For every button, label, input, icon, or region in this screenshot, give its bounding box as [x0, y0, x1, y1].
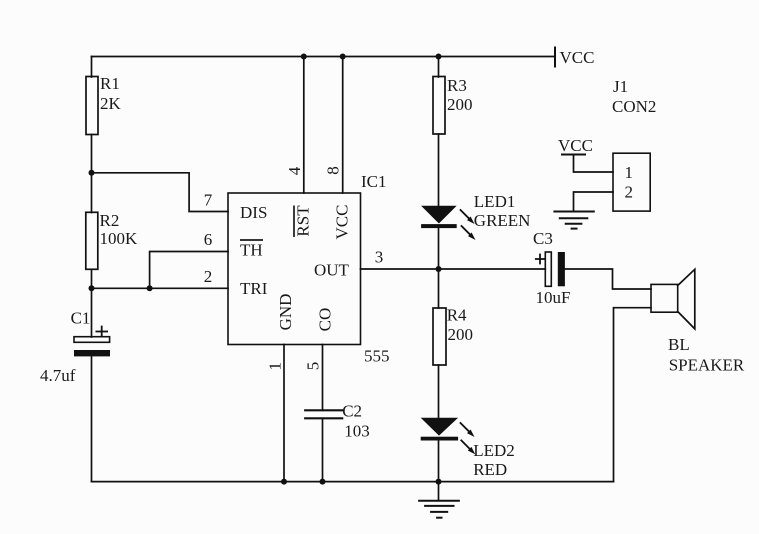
connector J1 body	[613, 153, 650, 211]
svg-text:R1: R1	[100, 74, 120, 93]
wire top VCC rail	[92, 56, 556, 58]
svg-text:5: 5	[304, 362, 323, 371]
svg-text:BL: BL	[668, 335, 690, 354]
wire VCC to J1 pin 1	[574, 155, 614, 173]
wire OUT net: pin 3 to C3	[361, 268, 546, 270]
svg-text:VCC: VCC	[558, 136, 593, 155]
svg-text:IC1: IC1	[361, 172, 387, 191]
junction pin1/bottom rail	[281, 479, 287, 485]
svg-text:2K: 2K	[100, 94, 122, 113]
svg-text:555: 555	[364, 347, 390, 366]
wire speaker bottom to bottom rail	[614, 308, 652, 482]
svg-text:DIS: DIS	[240, 203, 267, 222]
wire left rail: top corner to R1	[91, 57, 93, 78]
svg-text:OUT: OUT	[314, 261, 350, 280]
wire CO pin 5 to C2	[322, 345, 324, 411]
wire pin 4 to VCC rail	[303, 57, 305, 194]
wire pin 8 to VCC rail	[342, 57, 344, 194]
svg-text:GND: GND	[276, 294, 295, 331]
power terminal VCC top right	[554, 48, 556, 67]
svg-text:4.7uf: 4.7uf	[40, 366, 76, 385]
svg-text:CON2: CON2	[612, 97, 656, 116]
svg-text:1: 1	[624, 163, 633, 182]
svg-text:4: 4	[285, 166, 304, 175]
resistor R4	[433, 308, 446, 365]
capacitor C1 negative plate	[74, 350, 110, 356]
capacitor C1 plus sign	[96, 327, 107, 337]
wire J1 pin 2 to ground	[574, 192, 614, 212]
IC IC1 555 timer body	[228, 193, 361, 345]
svg-text:GREEN: GREEN	[474, 211, 531, 230]
wire R1 to node A	[91, 135, 93, 173]
wire ground stub main	[438, 482, 440, 501]
power VCC terminal J1	[562, 154, 585, 156]
svg-text:CO: CO	[316, 308, 335, 332]
svg-text:C1: C1	[71, 309, 91, 328]
LED LED1 triangle	[421, 206, 457, 224]
svg-text:103: 103	[344, 422, 370, 441]
svg-text:C3: C3	[533, 229, 553, 248]
wire C2 to bottom rail	[322, 418, 324, 481]
LED LED2 cathode bar	[421, 437, 458, 441]
wire R2 to node B	[91, 269, 93, 288]
svg-text:2: 2	[624, 183, 633, 202]
wire OUT node to R4	[438, 269, 440, 308]
wire DIS net: node A to pin 7	[92, 173, 229, 212]
LED LED2 triangle	[421, 418, 458, 436]
junction R3 on rail	[436, 54, 442, 60]
svg-text:C2: C2	[342, 402, 362, 421]
wire TH net: pin 6 to TH/TRI node	[150, 252, 228, 289]
svg-text:100K: 100K	[100, 229, 139, 248]
wire bottom ground rail	[92, 481, 614, 483]
wire GND pin 1 to bottom rail	[283, 345, 285, 482]
svg-text:TRI: TRI	[240, 279, 268, 298]
svg-text:2: 2	[204, 267, 213, 286]
ground J1	[554, 212, 593, 229]
svg-text:SPEAKER: SPEAKER	[669, 356, 745, 375]
svg-text:7: 7	[204, 191, 213, 210]
junction LED2/bottom rail	[436, 479, 442, 485]
svg-text:LED1: LED1	[474, 192, 516, 211]
junction pin8 on rail	[340, 54, 346, 60]
svg-text:6: 6	[204, 230, 213, 249]
svg-text:J1: J1	[613, 77, 628, 96]
svg-text:1: 1	[266, 362, 285, 371]
node A junction	[89, 170, 95, 176]
svg-text:LED2: LED2	[473, 441, 515, 460]
resistor R2	[86, 212, 98, 269]
node B junction	[89, 285, 95, 291]
wire R3 branch from rail	[438, 57, 440, 78]
wire C3 to speaker top	[565, 269, 651, 289]
junction C2/bottom rail	[320, 479, 326, 485]
wire LED2 to bottom rail	[438, 441, 440, 482]
svg-text:VCC: VCC	[560, 48, 595, 67]
LED LED1 cathode bar	[421, 224, 457, 228]
resistor R1	[86, 77, 98, 135]
speaker BL horn	[678, 269, 695, 329]
svg-text:RST: RST	[294, 205, 313, 237]
capacitor C3 positive plate	[545, 252, 551, 286]
speaker BL body	[651, 284, 678, 312]
svg-text:200: 200	[448, 325, 474, 344]
ground main	[419, 501, 459, 518]
node TH/TRI junction	[147, 285, 153, 291]
wire R3 to LED1	[438, 134, 440, 206]
capacitor C2	[305, 410, 342, 418]
resistor R3	[433, 77, 445, 135]
svg-text:200: 200	[447, 95, 473, 114]
wire node A to R2	[91, 173, 93, 213]
svg-text:RED: RED	[473, 460, 507, 479]
wire node B to C1	[91, 288, 93, 337]
LED LED1 arrows	[461, 210, 476, 240]
junction OUT/R4 node	[436, 266, 442, 272]
capacitor C3 plus sign	[536, 255, 544, 264]
svg-text:8: 8	[324, 166, 343, 175]
wire LED1 to OUT net	[438, 228, 440, 269]
LED LED2 arrows	[461, 423, 476, 454]
svg-text:R4: R4	[447, 306, 467, 325]
svg-text:VCC: VCC	[332, 205, 351, 240]
wire C1 to bottom rail	[91, 356, 93, 481]
svg-text:R3: R3	[447, 76, 467, 95]
capacitor C3 negative plate	[558, 252, 565, 286]
capacitor C1 positive plate	[74, 337, 110, 343]
svg-text:3: 3	[375, 248, 384, 267]
wire TRI net: node B to pin 2	[92, 287, 229, 289]
wire R4 to LED2	[438, 365, 440, 418]
svg-text:10uF: 10uF	[536, 288, 571, 307]
svg-text:R2: R2	[100, 211, 120, 230]
junction pin4 on rail	[301, 54, 307, 60]
svg-text:TH: TH	[240, 241, 263, 260]
